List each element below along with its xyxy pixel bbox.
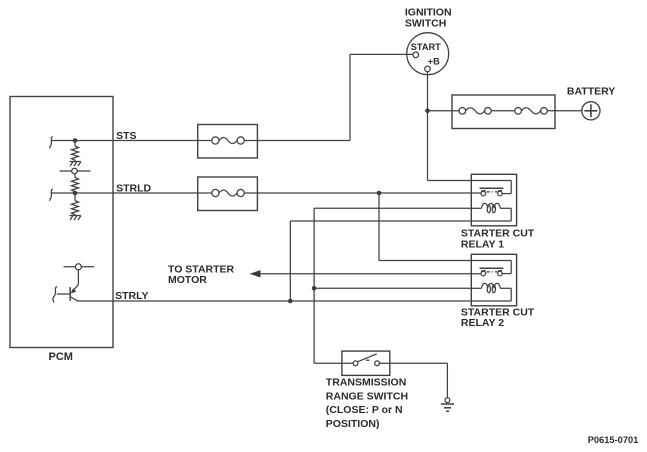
node transistor supply circle <box>64 264 95 270</box>
relay U2 (starter cut relay 2) <box>471 254 516 305</box>
tick STS left end <box>50 137 53 149</box>
wire vertical x=314 <box>313 208 315 363</box>
wire to START terminal <box>350 53 413 55</box>
node STRLD branch dot <box>377 191 382 196</box>
svg-text:TRANSMISSION: TRANSMISSION <box>326 377 407 389</box>
wire STRLD inside PCM <box>51 192 198 194</box>
terminal +B <box>425 66 431 72</box>
wire STS inside PCM <box>51 140 198 142</box>
wire to relay 2 coil <box>314 287 471 289</box>
fuse FL1 <box>459 108 491 115</box>
ground G1 <box>70 160 82 166</box>
wire TRS feed <box>314 362 353 364</box>
wire battery feed <box>428 110 459 112</box>
svg-text:SWITCH: SWITCH <box>405 18 446 30</box>
wire STS fuse to ignition <box>257 140 350 142</box>
svg-text:MOTOR: MOTOR <box>168 274 207 286</box>
svg-text:POSITION): POSITION) <box>326 418 380 430</box>
fuse F2 box (STRLD) <box>198 177 258 211</box>
resistor R3 (STRLD pulldown) <box>72 193 79 216</box>
fuse FL2 <box>515 108 548 115</box>
wire TRS to ground <box>380 362 448 364</box>
svg-text:(CLOSE: P or N: (CLOSE: P or N <box>326 404 403 416</box>
wire vertical x=290 <box>289 221 291 301</box>
resistor R2 (supply to STRLD) <box>72 174 79 193</box>
node battery junction dot <box>425 109 430 114</box>
wire +B down <box>427 72 429 181</box>
svg-text:+B: +B <box>428 56 440 66</box>
wire to relay 2 top <box>379 260 471 262</box>
arrow to starter motor <box>250 270 261 277</box>
fuse F1 box (STS) <box>198 125 258 159</box>
tick STRLD left end <box>50 189 53 201</box>
node coil branch dot <box>312 286 317 291</box>
wire vertical up to ignition <box>349 54 351 140</box>
tick transistor base break squiggle <box>53 287 57 303</box>
svg-text:START: START <box>411 42 441 52</box>
svg-text:PCM: PCM <box>49 351 73 363</box>
transistor Q1 (STRLY driver) <box>57 270 79 301</box>
node STS junction dot <box>73 138 78 143</box>
svg-text:STRLY: STRLY <box>115 290 148 302</box>
node STRLD junction dot <box>73 191 78 196</box>
switch S1 (transmission range switch) <box>342 351 390 375</box>
svg-text:RANGE SWITCH: RANGE SWITCH <box>326 390 408 402</box>
wire STRLD branch down <box>378 193 380 261</box>
battery terminal <box>582 102 600 120</box>
svg-text:STS: STS <box>116 130 136 142</box>
svg-text:STRLD: STRLD <box>116 183 151 195</box>
wire STRLY <box>77 300 471 302</box>
wire STRLD fuse to relay 1 <box>257 192 481 194</box>
resistor R1 (STS pulldown) <box>72 141 79 161</box>
svg-text:P0615-0701: P0615-0701 <box>588 435 639 445</box>
ignition switch body <box>407 33 449 75</box>
node internal supply circle <box>60 168 91 174</box>
ground G2 <box>70 216 82 221</box>
svg-text:RELAY 1: RELAY 1 <box>461 238 504 250</box>
wire +B to relay 1 <box>428 180 472 182</box>
wire between links <box>491 110 515 112</box>
PCM box <box>10 97 113 348</box>
svg-text:RELAY 2: RELAY 2 <box>461 317 504 329</box>
fusible link box <box>452 95 555 129</box>
node STRLY junction dot <box>288 299 293 304</box>
wire relay1 coil to TRS vertical <box>314 207 471 209</box>
fuse F1 element <box>198 137 258 144</box>
ground chassis <box>441 398 454 411</box>
wire relay1 return left <box>290 220 471 222</box>
wire link box to battery <box>547 110 582 112</box>
relay U1 (starter cut relay 1) <box>471 174 516 226</box>
terminal START <box>413 52 419 58</box>
svg-text:BATTERY: BATTERY <box>567 86 615 98</box>
fuse F2 element <box>198 189 258 196</box>
wire to starter motor <box>258 273 481 275</box>
